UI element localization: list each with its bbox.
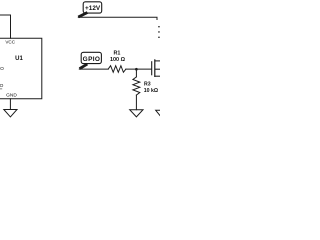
svg-text:GPIO: GPIO	[83, 56, 101, 63]
svg-text:R1: R1	[113, 51, 120, 57]
svg-text:GND: GND	[6, 92, 17, 98]
svg-text:VCC: VCC	[5, 40, 15, 45]
svg-text:GPIO: GPIO	[0, 83, 4, 89]
svg-text:10 kΩ: 10 kΩ	[144, 88, 158, 94]
svg-text:+12V: +12V	[85, 5, 101, 12]
svg-text:U1: U1	[15, 56, 23, 62]
svg-text:100 Ω: 100 Ω	[110, 57, 126, 63]
svg-text:GPIO: GPIO	[0, 66, 4, 72]
svg-text:R3: R3	[144, 82, 151, 88]
